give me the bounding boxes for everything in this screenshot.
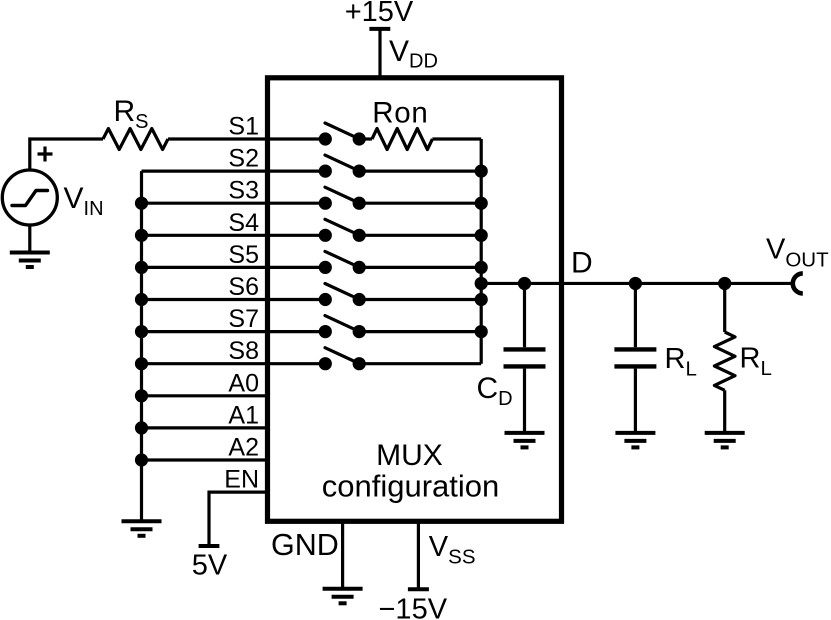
switch SW5 [319, 251, 366, 274]
junction dot A bus S8 [135, 357, 148, 370]
junction dot bus D [475, 277, 488, 290]
wire switch output S6 [359, 298, 481, 301]
junction dot A bus A2 [135, 453, 148, 466]
junction dot A bus A0 [135, 389, 148, 402]
+15V terminal tick [369, 27, 390, 31]
wire VSS pin [417, 521, 420, 589]
capacitor CD [504, 283, 546, 431]
switch SW6 [319, 284, 366, 307]
wire address bus vertical [140, 171, 143, 521]
wire VIN bottom [28, 225, 31, 253]
switch SW2 [319, 155, 366, 178]
ground (CD) [505, 433, 545, 448]
wire A1 input [142, 426, 268, 429]
wire S6 input [142, 298, 326, 301]
junction dot bus S2 [475, 165, 488, 178]
switch SW8 [319, 348, 366, 371]
svg-text:D: D [571, 247, 593, 280]
capacitor load CL [614, 283, 656, 431]
svg-text:S3: S3 [228, 177, 259, 205]
svg-text:A1: A1 [228, 401, 259, 429]
svg-text:+15V: +15V [345, 0, 414, 28]
svg-text:CD: CD [477, 372, 513, 410]
junction dot A bus S4 [135, 229, 148, 242]
wire switch output S5 [359, 266, 481, 269]
svg-text:5V: 5V [192, 550, 228, 582]
switch SW7 [319, 316, 366, 339]
wire switch output S2 [359, 170, 481, 173]
wire switch output S3 [359, 202, 481, 205]
wire A0 input [142, 394, 268, 397]
svg-text:−15V: −15V [379, 594, 448, 620]
source VIN [2, 170, 57, 225]
wire S5 input [142, 266, 326, 269]
svg-text:VOUT: VOUT [766, 234, 829, 272]
svg-text:RS: RS [114, 95, 149, 133]
svg-text:S5: S5 [228, 241, 259, 269]
-15V terminal tick [408, 587, 429, 591]
svg-text:A0: A0 [228, 369, 259, 397]
junction dot A bus S7 [135, 325, 148, 338]
svg-text:EN: EN [224, 466, 259, 494]
switch SW4 [319, 219, 366, 242]
svg-text:RL: RL [665, 343, 697, 381]
5V terminal tick [199, 544, 220, 548]
svg-text:S4: S4 [228, 209, 259, 237]
wire output bus vertical [480, 139, 483, 364]
wire switch output S7 [359, 330, 481, 333]
svg-text:S8: S8 [228, 337, 259, 365]
svg-text:MUX: MUX [376, 439, 443, 472]
svg-text:Ron: Ron [372, 97, 428, 130]
wire A2 input [142, 458, 268, 461]
ground (address bus) [122, 521, 162, 536]
svg-text:VDD: VDD [389, 35, 438, 73]
wire S1 input [168, 137, 325, 140]
resistor RL [714, 283, 735, 431]
junction dot bus S5 [475, 261, 488, 274]
switch SW3 [319, 187, 366, 210]
ground (VIN) [10, 253, 50, 268]
svg-text:configuration: configuration [322, 468, 500, 503]
wire VIN top [30, 139, 103, 170]
wire S7 input [142, 330, 326, 333]
terminal VOUT [793, 273, 803, 293]
wire S4 input [142, 234, 326, 237]
svg-text:A2: A2 [228, 434, 259, 462]
IC box U1 MUX [268, 78, 562, 522]
junction dot RL [718, 277, 731, 290]
junction dot bus S7 [475, 325, 488, 338]
ground (GND pin) [323, 589, 363, 604]
wire VDD supply [378, 29, 381, 78]
VIN ramp symbol [12, 191, 48, 206]
wire node D output [481, 282, 791, 285]
svg-text:VIN: VIN [64, 182, 104, 220]
wire S3 input [142, 202, 326, 205]
junction dot bus S4 [475, 229, 488, 242]
wire S2 input [142, 170, 326, 173]
wire GND pin [341, 521, 344, 587]
svg-text:S1: S1 [228, 113, 259, 141]
junction dot CD [518, 277, 531, 290]
svg-text:VSS: VSS [429, 531, 476, 569]
wire switch output S4 [359, 234, 481, 237]
ground (CL) [615, 433, 655, 448]
wire EN input [209, 492, 267, 546]
wire S8 input [142, 362, 326, 365]
svg-text:RL: RL [740, 343, 772, 381]
ground (RL) [705, 433, 745, 448]
resistor RS [103, 129, 168, 150]
switch SW1 [319, 123, 366, 146]
junction dot A bus S5 [135, 261, 148, 274]
junction dot bus S6 [475, 293, 488, 306]
wire switch output S8 [359, 362, 481, 365]
svg-text:S2: S2 [228, 145, 259, 173]
svg-text:GND: GND [271, 528, 339, 562]
resistor Ron [359, 129, 481, 150]
junction dot A bus A1 [135, 421, 148, 434]
junction dot CL [629, 277, 642, 290]
junction dot bus S3 [475, 197, 488, 210]
junction dot A bus S3 [135, 197, 148, 210]
svg-text:S6: S6 [228, 273, 259, 301]
svg-text:S7: S7 [228, 305, 259, 333]
plus sign [38, 147, 53, 162]
junction dot A bus S6 [135, 293, 148, 306]
